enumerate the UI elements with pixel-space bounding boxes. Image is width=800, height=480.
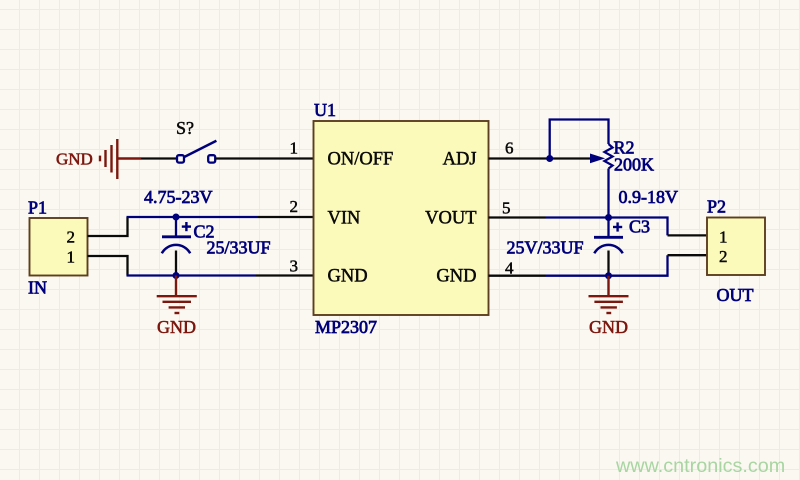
svg-text:C3: C3 [629,217,650,237]
junction node C3/GND [605,272,612,279]
svg-text:OUT: OUT [717,285,754,305]
capacitor C3 [594,218,623,276]
connector P1 [30,218,88,276]
svg-text:2: 2 [290,197,299,216]
wire switch to U1 pin 1 [215,157,314,159]
svg-text:5: 5 [502,199,511,218]
svg-text:GND: GND [328,267,368,287]
power ground symbol GND (battery style) [100,139,141,179]
svg-text:3: 3 [290,257,299,276]
earth ground under C2 [157,276,197,314]
svg-text:ADJ: ADJ [443,150,477,170]
svg-text:4: 4 [505,259,514,278]
wire P1 pin2 jog up to VIN rail [88,217,128,236]
svg-text:2: 2 [67,228,76,247]
svg-text:GND: GND [589,317,628,337]
wire U1 pin 6 to R2 wiper [489,157,593,159]
wire R2 to VOUT node [607,169,609,218]
svg-text:6: 6 [505,139,514,158]
svg-text:MP2307: MP2307 [315,317,377,337]
svg-text:25V/33UF: 25V/33UF [506,238,583,258]
C3 plus sign [613,222,622,231]
svg-text:1: 1 [719,228,728,247]
svg-text:IN: IN [28,278,47,298]
wire GND to switch [141,157,177,159]
junction node GND/C2 [173,272,180,279]
wire P1 pin1 jog down to GND rail [88,256,128,276]
svg-text:S?: S? [176,118,194,138]
wire GND rail pin stub (black) [256,274,314,276]
svg-text:VIN: VIN [328,208,361,228]
wire U1 pin 4 stub [489,275,546,277]
wire VIN rail (navy) [127,216,259,218]
svg-text:1: 1 [67,248,76,267]
svg-text:GND: GND [157,317,196,337]
svg-text:2: 2 [719,247,728,266]
wire U1 pin 5 stub [489,216,546,218]
svg-text:P1: P1 [28,198,47,218]
capacitor C2 [162,217,191,276]
junction node ADJ loop [546,155,553,162]
junction node VOUT/C3 [605,214,612,221]
svg-text:P2: P2 [707,197,726,217]
svg-text:200K: 200K [614,155,654,175]
resistor R2 (rheostat) [591,144,613,169]
wire VOUT rail [546,218,668,236]
svg-text:25/33UF: 25/33UF [207,238,271,258]
IC U1 (MP2307) [314,121,489,315]
svg-text:GND: GND [56,150,93,169]
wire P2 pin 2 stub [668,254,708,256]
wire GND-out rail [546,255,668,276]
C2 plus sign [182,222,191,231]
svg-text:GND: GND [436,267,476,287]
svg-text:ON/OFF: ON/OFF [328,150,394,170]
junction node VIN/C2 [173,214,180,221]
wire GND rail (navy) [127,274,257,276]
svg-text:1: 1 [290,139,299,158]
svg-text:VOUT: VOUT [425,208,476,228]
wire VIN rail pin stub (black) [258,216,314,218]
svg-text:www.cntronics.com: www.cntronics.com [615,455,785,477]
svg-text:4.75-23V: 4.75-23V [144,187,213,207]
svg-text:0.9-18V: 0.9-18V [619,187,679,207]
wire P2 pin 1 stub [668,234,708,236]
svg-text:U1: U1 [314,100,336,120]
earth ground under C3 [589,276,629,313]
switch S? [177,141,216,163]
connector P2 [707,218,765,276]
wire feedback loop over R2 [550,120,609,159]
